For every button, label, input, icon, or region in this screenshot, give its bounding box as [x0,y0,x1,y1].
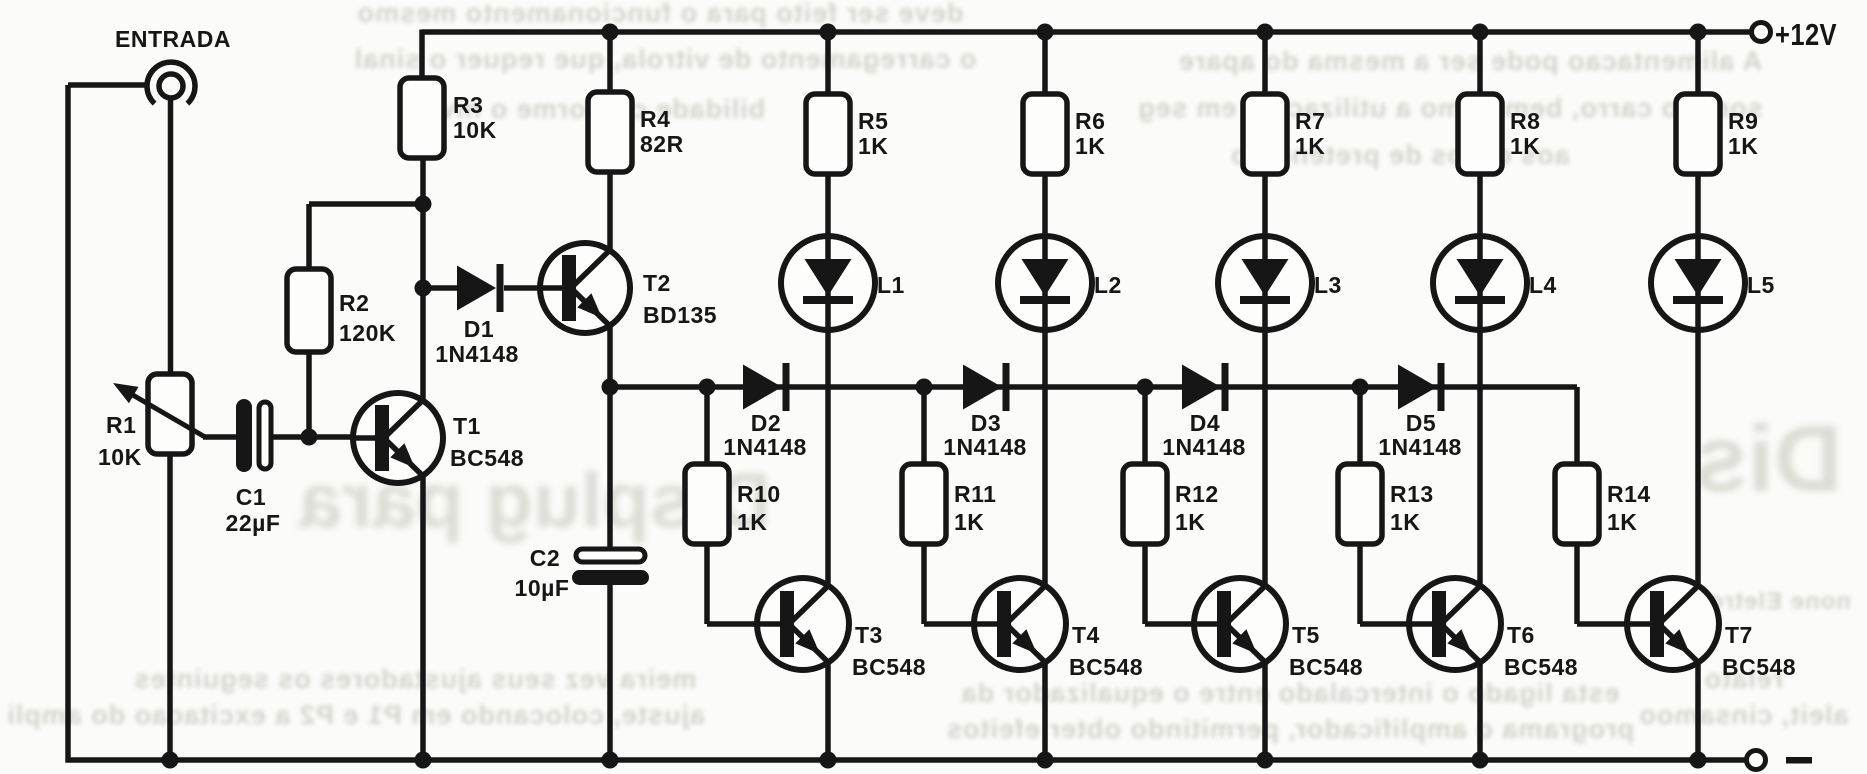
label R8 1K [1510,108,1540,159]
transistor T1 BC548 [353,393,443,483]
svg-text:R14: R14 [1607,481,1651,507]
capacitor C1 22uF [236,399,271,472]
label T3 BC548 [852,622,926,680]
svg-text:R13: R13 [1390,481,1434,507]
node: C2 ground junction [602,752,619,769]
label R2 120K [339,290,396,346]
svg-text:1N4148: 1N4148 [1162,434,1246,460]
resistor R11 1K [902,464,946,544]
svg-text:R9: R9 [1728,108,1758,134]
svg-text:L5: L5 [1747,272,1775,298]
node: T4 emitter ground junction [1037,752,1054,769]
wire: D5 cathode corner down to R14 [1574,387,1580,464]
label T4 BC548 [1069,622,1143,680]
transistor T6 BC548 [1409,578,1501,670]
wire: jack tip to R1 [168,97,174,374]
label R5 1K [858,108,888,159]
wire: R3 bottom / T1 collector line [420,158,426,401]
LED L3 [1218,236,1312,330]
label D4 1N4148 [1162,410,1246,460]
svg-text:BC548: BC548 [450,445,524,471]
svg-text:1N4148: 1N4148 [1378,434,1462,460]
label L5 [1747,272,1775,298]
svg-text:1K: 1K [1390,509,1420,535]
svg-text:10K: 10K [98,444,142,470]
wire: bus to R13 [1357,387,1363,464]
svg-text:10K: 10K [453,117,497,143]
label L3 [1314,272,1342,298]
wire: T3 emitter to ground [825,661,831,760]
svg-text:1N4148: 1N4148 [435,341,519,367]
svg-text:D5: D5 [1406,410,1436,436]
transistor T7 BC548 [1627,578,1719,670]
label T7 BC548 [1722,622,1796,680]
svg-text:L2: L2 [1094,272,1122,298]
terminal minus [1747,751,1813,770]
svg-text:C1: C1 [236,484,266,510]
resistor R2 120K [287,269,331,352]
svg-text:D1: D1 [464,316,494,342]
label D1 1N4148 [435,316,519,367]
wire: bus to R10 [704,387,710,464]
diode D2 1N4148 [743,363,790,411]
svg-text:R6: R6 [1075,108,1105,134]
node: R10 bus junction [699,379,716,396]
wire: T7 emitter to ground [1695,661,1701,760]
wire: L5 cathode down to transistor collector [1695,330,1701,587]
svg-text:R5: R5 [858,108,888,134]
resistor R3 10K [400,78,444,158]
resistor R14 1K [1555,464,1599,544]
diode D3 1N4148 [963,363,1010,411]
terminal +12V [1752,17,1838,52]
wire: top rail corner down to R3 [419,30,425,79]
svg-text:BC548: BC548 [852,654,926,680]
svg-text:1K: 1K [1295,133,1325,159]
svg-text:1K: 1K [1510,133,1540,159]
svg-text:R12: R12 [1175,481,1219,507]
node: R11 bus junction [916,379,933,396]
transistor T3 BC548 [757,578,849,670]
node: R4 top rail junction [602,24,619,41]
label T2 BD135 [643,270,717,328]
resistor R8 1K [1458,32,1502,174]
svg-text:BC548: BC548 [1504,654,1578,680]
diode D1 1N4148 [457,264,504,312]
node: R13 bus junction [1352,379,1369,396]
svg-text:T3: T3 [855,622,883,648]
node: R8 top rail junction [1472,24,1489,41]
node: C1/R2/T1-base junction [301,429,318,446]
wire: C1 to T1 base [271,434,353,440]
svg-text:L3: L3 [1314,272,1342,298]
label D2 1N4148 [723,410,807,460]
label R6 1K [1075,108,1105,159]
label L1 [877,272,905,298]
wire: T6 emitter to ground [1477,661,1483,760]
node: T2 emitter / C2 / bus junction [602,379,619,396]
wire: R2 bottom lead [306,352,312,437]
svg-text:1N4148: 1N4148 [943,434,1027,460]
wire: input ground return (left side down) [68,85,149,763]
svg-text:D4: D4 [1190,410,1220,436]
wire: R2 top to T1 collector node [309,204,423,269]
resistor R10 1K [685,464,729,544]
wire: bus to R11 [921,387,927,464]
svg-text:BC548: BC548 [1069,654,1143,680]
wire: C2 to ground [607,585,613,760]
svg-text:1N4148: 1N4148 [723,434,807,460]
wire: node to D1 anode [423,285,457,291]
node: T7 emitter ground junction [1690,752,1707,769]
node: T3 emitter ground junction [820,752,837,769]
svg-text:R10: R10 [737,481,781,507]
wire: R9 to L5 [1695,174,1701,236]
wire: +12V top rail [422,29,1752,35]
resistor R4 82R [588,32,632,172]
label C1 22uF [226,484,281,536]
label T6 BC548 [1504,622,1578,680]
LED L4 [1433,236,1527,330]
LED L5 [1651,236,1745,330]
wire: R6 to L2 [1042,174,1048,236]
capacitor C2 10uF [572,549,649,585]
label R10 1K [737,481,781,535]
wire: T1 emitter to ground [420,475,426,760]
svg-text:120K: 120K [339,320,396,346]
svg-text:BC548: BC548 [1289,654,1363,680]
node: R5 top rail junction [820,24,837,41]
label R7 1K [1295,108,1325,159]
label R3 10K [453,92,497,143]
svg-text:R1: R1 [106,412,136,438]
wire: D1 cathode to T2 base [504,285,540,291]
transistor T2 BD135 [540,243,630,333]
label R12 1K [1175,481,1219,535]
wire: R13 to T6 base [1360,544,1411,624]
svg-text:1K: 1K [954,509,984,535]
wire: R5 to L1 [825,174,831,236]
LED L1 [781,236,875,330]
svg-text:R8: R8 [1510,108,1540,134]
wire: L1 cathode down to transistor collector [825,330,831,587]
resistor R12 1K [1123,464,1167,544]
svg-text:BD135: BD135 [643,302,717,328]
label R4 82R [640,106,684,157]
label R14 1K [1607,481,1651,535]
svg-text:R7: R7 [1295,108,1325,134]
wire: R8 to L4 [1477,174,1483,236]
label C2 10uF [515,545,570,601]
wire: bus to R12 [1142,387,1148,464]
svg-text:T4: T4 [1072,622,1100,648]
wire: bus node down to C2 [607,387,613,550]
svg-text:BC548: BC548 [1722,654,1796,680]
resistor R9 1K [1676,32,1720,174]
label D5 1N4148 [1378,410,1462,460]
transistor T5 BC548 [1194,578,1286,670]
label R9 1K [1728,108,1758,159]
svg-text:T7: T7 [1725,622,1753,648]
wire: R10 to T3 base [707,544,759,624]
ghost bleed-through text (decorative) [185,0,1135,29]
svg-text:R3: R3 [453,92,483,118]
wire: R4 to T2 collector [607,172,613,251]
resistor R13 1K [1338,464,1382,544]
wire: diode bus [610,384,1577,390]
svg-text:D3: D3 [971,410,1001,436]
wire: R1 bottom to ground rail [167,454,173,760]
svg-text:1K: 1K [858,133,888,159]
wire: L4 cathode down to transistor collector [1477,330,1483,587]
resistor R7 1K [1243,32,1287,174]
wire: R1 wiper to C1 [203,434,238,440]
svg-text:ENTRADA: ENTRADA [115,26,231,52]
label R13 1K [1390,481,1434,535]
label R1 10K [98,412,142,470]
node: T6 emitter ground junction [1472,752,1489,769]
label R11 1K [954,481,996,535]
label D3 1N4148 [943,410,1027,460]
svg-text:22µF: 22µF [226,510,281,536]
node: R7 top rail junction [1257,24,1274,41]
svg-text:1K: 1K [737,509,767,535]
svg-text:1K: 1K [1607,509,1637,535]
label L4 [1529,272,1557,298]
svg-text:T1: T1 [453,413,481,439]
label ENTRADA [115,26,231,52]
svg-text:C2: C2 [530,545,560,571]
svg-text:T2: T2 [643,270,671,296]
wire: R12 to T5 base [1145,544,1196,624]
svg-text:1K: 1K [1075,133,1105,159]
resistor R6 1K [1023,32,1067,174]
wire: R14 to T7 base [1577,544,1629,624]
wire: R11 to T4 base [924,544,976,624]
wire: T4 emitter to ground [1042,661,1048,760]
wire: L3 cathode down to transistor collector [1262,330,1268,587]
label T5 BC548 [1289,622,1363,680]
node: D1 anode junction [415,280,432,297]
svg-text:+12V: +12V [1775,17,1837,52]
svg-text:L1: L1 [877,272,905,298]
svg-text:1K: 1K [1728,133,1758,159]
wire: T5 emitter to ground [1262,661,1268,760]
node: R9 top rail junction [1690,24,1707,41]
transistor T4 BC548 [974,578,1066,670]
svg-text:T6: T6 [1507,622,1535,648]
svg-text:10µF: 10µF [515,575,570,601]
svg-text:82R: 82R [640,131,684,157]
wire: T2 emitter down to bus [607,325,613,387]
node: T5 emitter ground junction [1257,752,1274,769]
svg-text:R4: R4 [640,106,670,132]
svg-text:T5: T5 [1292,622,1320,648]
svg-text:R2: R2 [339,290,369,316]
svg-text:L4: L4 [1529,272,1557,298]
diode D5 1N4148 [1398,363,1445,411]
wire: L2 cathode down to transistor collector [1042,330,1048,587]
node: R12 bus junction [1137,379,1154,396]
svg-text:R11: R11 [954,481,996,507]
label T1 BC548 [450,413,524,471]
resistor R5 1K [806,32,850,174]
svg-text:1K: 1K [1175,509,1205,535]
diode D4 1N4148 [1182,363,1229,411]
potentiometer R1 10K [113,374,205,454]
wire: ground bottom rail [66,757,1748,763]
node: T1 emitter ground junction [415,752,432,769]
LED L2 [998,236,1092,330]
svg-text:D2: D2 [751,410,781,436]
label L2 [1094,272,1122,298]
node: R6 top rail junction [1037,24,1054,41]
wire: R7 to L3 [1262,174,1268,236]
connector J1 ENTRADA (input jack) [147,62,195,104]
node: R2/R3 junction [415,196,432,213]
node: R1 ground junction [162,752,179,769]
